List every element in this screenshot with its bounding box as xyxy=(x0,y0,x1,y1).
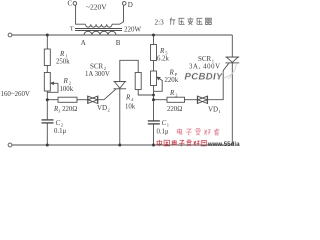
wire left branch upper xyxy=(46,35,48,49)
svg-text:2: 2 xyxy=(108,107,110,112)
svg-text:PCBDIY: PCBDIY xyxy=(185,72,225,83)
svg-text:R3 220Ω: R3 220Ω xyxy=(53,106,77,114)
resistor R5 xyxy=(151,45,157,61)
svg-text:220k: 220k xyxy=(165,77,179,84)
svg-text:220W: 220W xyxy=(124,25,142,33)
svg-text:R: R xyxy=(159,47,165,55)
capacitor C1 xyxy=(148,120,160,122)
wire VD1 to SCR1 gate xyxy=(208,63,229,99)
svg-text:A: A xyxy=(81,39,86,47)
svg-text:1A 300V: 1A 300V xyxy=(85,71,110,78)
wire center column lower xyxy=(153,86,155,121)
node junction bottom center xyxy=(152,144,155,147)
wire R3 to VD2 xyxy=(77,99,87,101)
thyristor SCR2 xyxy=(113,81,126,83)
svg-text:~220V: ~220V xyxy=(86,3,107,12)
wire R4 to center column xyxy=(138,90,153,96)
svg-text:R: R xyxy=(169,89,175,97)
svg-text:2:3: 2:3 xyxy=(155,19,165,27)
node junction bottom SCR2 xyxy=(118,144,121,147)
potentiometer R2 xyxy=(44,73,50,92)
svg-text:6.2k: 6.2k xyxy=(157,55,169,62)
wire C1 to bottom rail xyxy=(153,125,155,146)
resistor R4 xyxy=(135,73,141,90)
svg-text:R: R xyxy=(125,93,131,101)
wire R1 to R2 xyxy=(46,66,48,73)
svg-text:SCR: SCR xyxy=(90,62,104,70)
wire R6 to VD1 xyxy=(185,99,198,101)
potentiometer R2 wiper xyxy=(53,82,58,84)
svg-text:R: R xyxy=(169,68,175,76)
terminal input top xyxy=(8,33,12,37)
svg-text:www.55dian: www.55dian xyxy=(207,141,240,148)
transformer secondary winding xyxy=(84,31,116,35)
terminal D xyxy=(122,2,126,6)
svg-text:B: B xyxy=(116,39,121,47)
wire top rail xyxy=(12,34,233,36)
wire center branch upper xyxy=(153,35,155,45)
resistor R1 xyxy=(44,49,50,66)
transformer T primary winding xyxy=(86,24,113,27)
svg-text:C: C xyxy=(56,119,61,127)
wire C2 to bottom rail xyxy=(46,124,48,146)
svg-text:2: 2 xyxy=(61,123,63,128)
diac VD1 xyxy=(196,96,198,104)
wire right column xyxy=(231,35,233,57)
capacitor C2 xyxy=(42,119,54,121)
svg-text:C: C xyxy=(68,0,73,8)
node junction right gate xyxy=(152,98,155,101)
svg-text:C: C xyxy=(162,119,167,127)
wire R5 to RP xyxy=(153,61,155,72)
svg-text:0.1μ: 0.1μ xyxy=(54,128,66,135)
svg-text:100k: 100k xyxy=(60,86,74,93)
wire SCR2 anode xyxy=(120,60,138,81)
watermark red line xyxy=(157,140,206,146)
wire D lead xyxy=(112,5,124,24)
wire VD2 to SCR2 gate xyxy=(98,89,116,100)
terminal C xyxy=(73,2,77,6)
wire C lead xyxy=(76,5,86,24)
node junction top center xyxy=(152,34,155,37)
terminal input bottom xyxy=(8,143,12,147)
resistor R3 xyxy=(58,97,77,102)
svg-text:D: D xyxy=(128,1,133,9)
svg-text:T: T xyxy=(70,26,74,33)
svg-text:1: 1 xyxy=(219,109,221,114)
svg-text:2: 2 xyxy=(69,81,71,86)
svg-text:10k: 10k xyxy=(125,103,136,110)
svg-text:250k: 250k xyxy=(56,59,70,66)
svg-text:2: 2 xyxy=(175,93,177,98)
node junction left gate xyxy=(46,98,49,101)
svg-text:R: R xyxy=(63,77,69,85)
wire left gate line xyxy=(47,99,58,101)
svg-text:SCR: SCR xyxy=(198,55,212,63)
svg-text:R: R xyxy=(59,50,65,58)
svg-text:VD: VD xyxy=(97,104,107,112)
diac VD2 xyxy=(87,96,89,104)
potentiometer RP wiper xyxy=(159,78,162,80)
thyristor SCR1 xyxy=(225,56,239,58)
transformer core xyxy=(75,28,122,30)
svg-text:0.1μ: 0.1μ xyxy=(157,128,169,135)
resistor R6 xyxy=(167,97,185,102)
wire bottom rail xyxy=(12,144,233,146)
svg-text:3A, 400V: 3A, 400V xyxy=(189,63,221,70)
wire SCR2 cathode xyxy=(119,89,121,145)
node junction bottom left xyxy=(46,144,49,147)
wire right gate line xyxy=(154,99,168,101)
wire left column lower xyxy=(46,91,48,120)
watermark pink line xyxy=(177,128,219,135)
svg-text:220Ω: 220Ω xyxy=(167,106,182,113)
potentiometer RP xyxy=(151,71,157,86)
node junction R4 xyxy=(152,94,155,97)
svg-text:VD: VD xyxy=(208,105,218,113)
node junction top left xyxy=(46,34,49,37)
svg-text:160~260V: 160~260V xyxy=(1,91,30,98)
svg-text:1: 1 xyxy=(167,123,169,128)
